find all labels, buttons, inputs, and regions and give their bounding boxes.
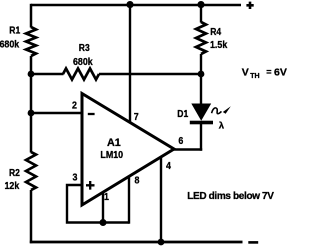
svg-text:1.5k: 1.5k <box>210 39 228 51</box>
value 12k (R2) <box>5 180 20 192</box>
pin number 7 <box>134 111 139 123</box>
threshold annotation VTH = 6V <box>242 66 287 80</box>
wire: pin 8 drop <box>128 176 130 224</box>
svg-text:λ: λ <box>219 121 225 132</box>
wire: left rail bottom segment <box>30 190 33 243</box>
wire: pin 4 drop to ground rail <box>160 156 162 242</box>
svg-text:6: 6 <box>178 136 183 148</box>
- supply terminal <box>248 241 258 244</box>
wire: pin 1 drop <box>102 193 104 223</box>
svg-text:R1: R1 <box>9 24 20 36</box>
op-amp non-inverting input + symbol <box>86 181 95 190</box>
node: top rail to R4 junction <box>197 1 204 8</box>
pin number 1 <box>104 191 110 203</box>
wire: op-amp output pin 6 <box>173 148 202 151</box>
wire: left rail middle segment <box>30 56 33 153</box>
wire: left rail top segment <box>30 4 33 28</box>
pin number 2 <box>72 100 77 112</box>
svg-text:V: V <box>242 66 249 78</box>
lambda symbol <box>219 121 225 132</box>
+ supply terminal <box>246 2 253 9</box>
resistor R2 <box>26 152 36 190</box>
svg-text:12k: 12k <box>5 180 20 192</box>
value 680k (R3) <box>73 56 93 68</box>
node: top rail to pin 7 junction <box>126 1 133 8</box>
svg-text:D1: D1 <box>177 107 188 119</box>
svg-text:LED dims below 7V: LED dims below 7V <box>187 191 274 202</box>
wire: feedback node right segment (R3 to R4/LED junction) <box>99 73 201 75</box>
label R2 <box>9 166 20 178</box>
label R4 <box>210 25 222 37</box>
svg-text:680k: 680k <box>0 39 20 51</box>
svg-text:8: 8 <box>135 175 141 187</box>
wire: pin 2 inverting input stub <box>31 112 82 114</box>
label A1 <box>107 137 121 149</box>
wire: top positive supply rail <box>31 4 241 7</box>
svg-text:2: 2 <box>72 100 77 112</box>
svg-text:6V: 6V <box>274 66 287 78</box>
wire: R4 top lead <box>200 5 202 23</box>
svg-text:LM10: LM10 <box>100 150 123 162</box>
label LM10 <box>100 150 123 162</box>
svg-text:R4: R4 <box>210 25 222 37</box>
LED D1 cathode bar <box>190 121 213 125</box>
wire: bottom ground rail <box>30 241 243 244</box>
svg-text:1: 1 <box>104 191 110 203</box>
node: pin1/pin3/pin8 tie junction <box>100 219 107 226</box>
svg-text:R3: R3 <box>79 41 90 53</box>
resistor R4 <box>196 22 206 54</box>
svg-text:A1: A1 <box>107 137 121 149</box>
svg-text:R2: R2 <box>9 166 20 178</box>
node: pin 4 to ground rail junction <box>158 239 165 246</box>
pin number 6 <box>178 136 183 148</box>
value 1.5k (R4) <box>210 39 228 51</box>
label D1 <box>177 107 188 119</box>
op-amp inverting input - symbol <box>88 113 95 115</box>
resistor R1 <box>26 27 36 56</box>
LED D1 anode triangle <box>191 104 211 121</box>
wire: pin 3 stub (left, down, right U-path) <box>67 185 129 223</box>
LED light emission arrow <box>212 106 231 114</box>
pin number 4 <box>166 161 172 173</box>
svg-text:=: = <box>266 67 271 77</box>
op-amp A1 triangle <box>82 94 174 206</box>
wire: feedback node left segment (R1/R2 junction to R3) <box>31 73 64 75</box>
wire: LED anode lead <box>200 74 202 105</box>
node: R4/R3/LED junction <box>198 71 205 78</box>
pin number 8 <box>135 175 141 187</box>
wire: LED cathode to output <box>200 124 202 151</box>
node: R1/R2/R3 junction <box>28 71 35 78</box>
node: inverting input tap on left rail <box>28 110 35 117</box>
label R3 <box>79 41 90 53</box>
svg-text:680k: 680k <box>73 56 93 68</box>
annotation: LED dims below 7V <box>187 191 274 202</box>
svg-text:4: 4 <box>166 161 172 173</box>
pin number 3 <box>73 172 78 184</box>
value 680k (R1) <box>0 39 20 51</box>
label R1 <box>9 24 20 36</box>
resistor R3 <box>63 69 99 80</box>
wire: pin 7 supply drop <box>129 5 131 123</box>
svg-text:TH: TH <box>250 73 259 80</box>
svg-text:3: 3 <box>73 172 78 184</box>
wire: R4 bottom lead <box>200 54 202 74</box>
svg-text:7: 7 <box>134 111 139 123</box>
